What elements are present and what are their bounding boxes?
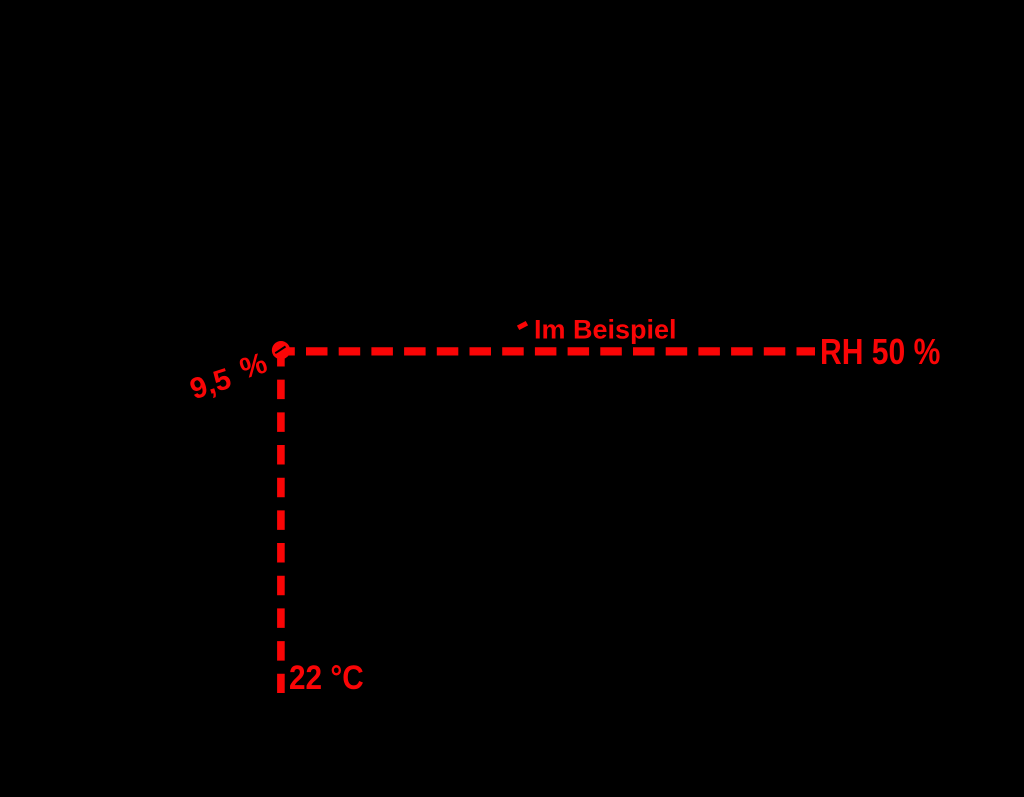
wire horizontal dashed red line to RH 50%: [273, 347, 815, 355]
svg-text:Im Beispiel: Im Beispiel: [534, 315, 677, 345]
node intersection point circle: [272, 341, 290, 359]
svg-text:RH 50 %: RH 50 %: [820, 332, 940, 372]
wire vertical dashed red line down to 22 C: [277, 347, 285, 693]
node tick left of Im Beispiel: [517, 321, 528, 330]
svg-text:22 °C: 22 °C: [289, 658, 364, 696]
